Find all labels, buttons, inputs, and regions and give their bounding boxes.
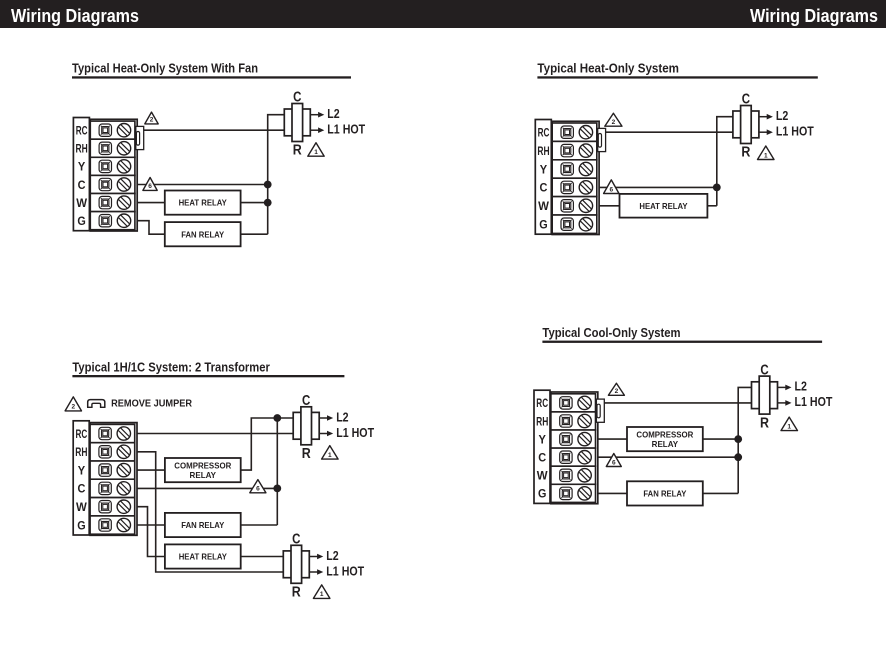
svg-text:RC: RC [76,427,88,441]
wire d4 compressor relay to bus [703,438,738,440]
terminal row RC: cell, screw terminal pin, wire opening, label [536,394,595,412]
transformer T3a (d3 cooling) core (tall narrow rectangle) [301,407,312,445]
title underline rule (d2) [537,76,817,78]
wire d1 fan relay to bus [241,233,268,235]
svg-text:1: 1 [314,149,318,156]
jumper tab between RC and RH terminals [598,128,606,151]
wire d3 RC to transformer 1 R side [137,433,293,435]
terminal row W: cell, screw terminal pin, wire opening, label [537,466,596,484]
arrow to L1 HOT from transformer T3a (d3 cooling) [319,431,333,437]
svg-text:G: G [538,487,546,501]
wire d1 vertical bus [267,130,269,234]
wire d3 heat relay to transformer 2 C side [241,556,284,558]
terminal row C: cell, screw terminal pin, wire opening, label [540,178,597,196]
terminal block TB4 outer box [551,392,598,504]
svg-text:C: C [302,393,311,409]
wire d3 W terminal to heat relay [137,507,165,557]
svg-text:L1 HOT: L1 HOT [326,564,364,578]
transformer T4 (d4) winding (wide rectangle) [752,382,778,409]
svg-text:Typical Heat-Only System: Typical Heat-Only System [537,61,679,76]
wire d1 riser to transformer C side [268,115,285,131]
wire d2 heat relay to bus [707,205,716,207]
svg-text:W: W [76,196,87,210]
transformer T1 (d1) core (tall narrow rectangle) [292,104,303,142]
svg-text:RH: RH [75,445,87,459]
terminal row RC: cell, screw terminal pin, wire opening, label [76,121,135,139]
svg-text:6: 6 [612,459,616,466]
terminal row W: cell, screw terminal pin, wire opening, label [76,194,135,212]
wire d2 C terminal to bus [599,186,717,188]
warning triangle note 2 (d1 note near RC) [145,112,158,124]
terminal row W: cell, screw terminal pin, wire opening, label [76,498,135,516]
relay box heat relay (d2) [620,194,708,218]
svg-text:Wiring Diagrams: Wiring Diagrams [750,5,878,26]
wire d2 RC to transformer R side [606,131,733,133]
warning triangle note 6 (d4 note on C wire) [606,454,621,467]
svg-text:FAN RELAY: FAN RELAY [181,229,224,239]
terminal row W: cell, screw terminal pin, wire opening, label [538,197,597,215]
arrow to L1 HOT from transformer T3b (d3 heating) [309,569,323,575]
svg-text:6: 6 [609,186,613,193]
svg-text:1: 1 [320,591,324,598]
terminal block TB2 label column [535,120,551,235]
svg-text:2: 2 [150,117,154,124]
warning triangle note 1 (d1 note near R) [308,143,324,157]
svg-text:C: C [760,362,769,378]
wire d2 riser to transformer C side [717,117,733,133]
arrow to L1 HOT from transformer T2 (d2) [759,129,773,135]
svg-text:RH: RH [537,144,549,158]
svg-text:Wiring Diagrams: Wiring Diagrams [11,5,139,26]
terminal row Y: cell, screw terminal pin, wire opening, label [540,160,597,178]
jumper tab between RC and RH terminals [136,126,144,149]
svg-text:RH: RH [536,414,548,428]
svg-text:FAN RELAY: FAN RELAY [643,489,686,499]
warning triangle note 6 (d1 note on C wire) [143,178,157,191]
terminal row Y: cell, screw terminal pin, wire opening, label [78,461,135,479]
terminal block TB1 outer box [90,119,137,231]
svg-text:Y: Y [540,162,547,176]
header bar [0,0,886,28]
junction dot d4 compressor junction [734,435,742,443]
svg-text:G: G [77,518,85,532]
svg-text:Y: Y [539,432,546,446]
svg-text:L1 HOT: L1 HOT [336,426,374,440]
svg-text:L1 HOT: L1 HOT [776,125,814,139]
arrow to L2 from transformer T1 (d1) [310,112,324,118]
wire d4 RC to transformer R side [604,402,751,404]
svg-text:2: 2 [612,119,616,126]
wire d2 W terminal to heat relay [599,205,619,207]
terminal row RH: cell, screw terminal pin, wire opening, label [537,141,596,159]
title underline rule (d1) [72,76,351,78]
terminal row RH: cell, screw terminal pin, wire opening, label [76,139,135,157]
svg-text:R: R [741,145,750,161]
junction dot d1 heat relay junction [264,199,272,207]
wire d4 G terminal to fan relay [598,492,627,494]
svg-text:HEAT RELAY: HEAT RELAY [179,552,227,562]
junction dot d1 C junction [264,181,272,189]
junction dot d3 C junction [273,485,281,493]
arrow to L2 from transformer T3a (d3 cooling) [319,415,333,421]
wire d1 C terminal to bus [137,184,268,186]
svg-text:W: W [537,469,548,483]
terminal row G: cell, screw terminal pin, wire opening, label [77,212,135,230]
wire d1 G terminal to fan relay [137,221,165,235]
terminal block TB1 label column [73,118,89,231]
wire d1 heat relay to bus [241,202,268,204]
jumper icon (remove jumper legend) [87,400,106,408]
svg-text:R: R [302,446,311,462]
svg-text:C: C [78,178,86,192]
terminal row RC: cell, screw terminal pin, wire opening, label [538,123,597,141]
terminal row G: cell, screw terminal pin, wire opening, label [539,215,597,233]
svg-text:RH: RH [76,142,88,156]
svg-text:L2: L2 [336,410,348,424]
terminal row C: cell, screw terminal pin, wire opening, label [78,175,135,193]
svg-text:C: C [742,92,751,108]
wire d4 vertical bus [737,403,739,494]
svg-text:1: 1 [328,452,332,459]
junction dot d4 C junction [734,453,742,461]
svg-text:R: R [760,415,769,431]
svg-text:Typical Heat-Only System With: Typical Heat-Only System With Fan [72,61,258,76]
warning triangle note 6 (d2 note on C wire) [604,180,619,194]
wire d3 G terminal to fan relay [137,524,165,526]
svg-text:L2: L2 [327,107,339,121]
svg-text:W: W [76,500,87,514]
warning triangle note 1 (d4 note near R) [781,417,798,431]
title underline rule (d3) [72,375,344,377]
transformer T4 (d4) core (tall narrow rectangle) [759,376,770,414]
svg-text:C: C [77,482,85,496]
relay box heat relay (d1) [165,191,241,215]
svg-text:C: C [293,90,302,106]
wire d1 RC to transformer R side [144,129,285,131]
svg-text:L2: L2 [326,549,338,563]
relay box compressor relay (d4) [627,427,703,451]
relay box fan relay (d1) [165,222,241,246]
wire d3 vertical bus [276,418,278,525]
svg-text:RC: RC [536,396,548,410]
warning triangle note 2 (d4 note near RC) [608,383,624,395]
svg-text:C: C [538,451,546,465]
arrow to L2 from transformer T3b (d3 heating) [309,554,323,560]
arrow to L1 HOT from transformer T1 (d1) [310,127,324,133]
svg-text:HEAT RELAY: HEAT RELAY [639,201,687,211]
svg-text:L2: L2 [776,109,788,123]
svg-text:6: 6 [256,486,260,493]
svg-text:Typical 1H/1C System: 2 Transf: Typical 1H/1C System: 2 Transformer [72,359,270,374]
junction dot d3 transformer junction [273,414,281,422]
warning triangle note 1 (d3 note near R of T3b) [313,585,330,599]
terminal row RC: cell, screw terminal pin, wire opening, label [76,424,135,442]
warning triangle note 2 (d2 note near RC) [605,113,622,126]
title underline rule (d4) [542,341,822,343]
warning triangle note 1 (d3 note near R of T3a) [322,446,339,460]
transformer T3b (d3 heating) winding (wide rectangle) [283,551,309,578]
svg-text:G: G [539,218,547,232]
wire d3 compressor relay to transformer 1 C side [241,418,294,470]
terminal row RH: cell, screw terminal pin, wire opening, label [75,443,134,461]
warning triangle note 2 (d3 note remove jumper) [65,397,81,411]
terminal row Y: cell, screw terminal pin, wire opening, label [539,430,596,448]
svg-text:Y: Y [78,463,85,477]
transformer T2 (d2) winding (wide rectangle) [733,111,759,138]
svg-text:Y: Y [78,160,85,174]
arrow to L2 from transformer T2 (d2) [759,114,773,120]
terminal block TB2 outer box [552,121,599,234]
terminal block TB3 label column [73,421,89,535]
svg-text:6: 6 [148,183,152,190]
warning triangle note 1 (d2 note near R) [758,146,775,160]
svg-text:L1 HOT: L1 HOT [327,123,365,137]
arrow to L2 from transformer T4 (d4) [778,385,792,391]
terminal row Y: cell, screw terminal pin, wire opening, label [78,157,135,175]
svg-text:RELAY: RELAY [190,470,217,480]
terminal row G: cell, screw terminal pin, wire opening, label [538,484,596,502]
svg-text:W: W [538,199,549,213]
svg-text:R: R [292,585,301,601]
svg-text:HEAT RELAY: HEAT RELAY [179,198,227,208]
svg-text:RC: RC [538,126,550,140]
wire d2 vertical bus [716,132,718,206]
wire d4 C terminal to bus [598,456,738,458]
terminal row G: cell, screw terminal pin, wire opening, label [77,516,135,534]
jumper tab between RC and RH terminals [596,399,604,422]
svg-text:1: 1 [764,152,768,159]
arrow to L1 HOT from transformer T4 (d4) [778,400,792,406]
relay box compressor relay (d3) [165,458,241,482]
svg-text:Typical Cool-Only System: Typical Cool-Only System [542,325,680,340]
svg-text:FAN RELAY: FAN RELAY [181,520,224,530]
relay box fan relay (d3) [165,513,241,537]
terminal row RH: cell, screw terminal pin, wire opening, label [536,412,595,430]
svg-text:RELAY: RELAY [652,439,679,449]
wire d4 riser to transformer C side [738,387,751,403]
terminal block TB3 outer box [90,423,137,536]
wire d3 fan relay to bus [241,524,278,526]
transformer T3b (d3 heating) core (tall narrow rectangle) [291,545,302,583]
wire d1 W terminal to heat relay [137,202,165,204]
transformer T3a (d3 cooling) winding (wide rectangle) [293,412,319,439]
terminal row C: cell, screw terminal pin, wire opening, label [538,448,595,466]
svg-text:1: 1 [787,423,791,430]
svg-text:2: 2 [71,404,75,411]
svg-text:REMOVE JUMPER: REMOVE JUMPER [111,399,193,410]
wire d4 fan relay to bus [703,492,738,494]
svg-text:R: R [293,143,302,159]
svg-text:C: C [540,181,548,195]
junction dot d2 C junction [713,184,721,192]
svg-text:COMPRESSOR: COMPRESSOR [174,461,231,471]
warning triangle note 6 (d3 note on C wire) [250,480,266,493]
wire d3 C terminal to bus [137,487,277,489]
svg-text:2: 2 [615,388,619,395]
relay box heat relay (d3) [165,544,241,568]
svg-text:COMPRESSOR: COMPRESSOR [636,430,693,440]
terminal block TB4 label column [534,390,550,503]
relay box fan relay (d4) [627,481,703,505]
transformer T2 (d2) core (tall narrow rectangle) [741,106,752,144]
svg-text:C: C [292,532,301,548]
wire d3 RH to transformer 2 R side [137,452,283,572]
svg-text:RC: RC [76,124,88,138]
terminal row C: cell, screw terminal pin, wire opening, label [77,479,134,497]
svg-text:G: G [77,214,85,228]
svg-text:L2: L2 [795,380,807,394]
svg-text:L1 HOT: L1 HOT [795,395,833,409]
wire d3 Y terminal to compressor relay [137,469,165,471]
wire d4 Y terminal to compressor relay [598,438,627,440]
transformer T1 (d1) winding (wide rectangle) [284,109,310,136]
